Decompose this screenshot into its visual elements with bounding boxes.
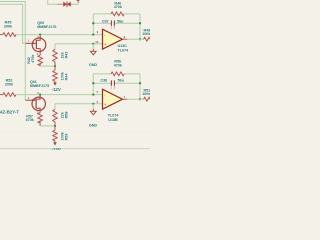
svg-text:U13B: U13B	[108, 118, 118, 122]
op-amp U13B	[103, 89, 123, 109]
junction C38 right	[139, 82, 141, 84]
junction gnd tee top	[92, 43, 94, 45]
svg-text:4Z-B2Y-T: 4Z-B2Y-T	[0, 109, 19, 114]
resistor R48	[144, 37, 154, 41]
component lead above top edge	[77, 0, 80, 2]
svg-text:470k: 470k	[114, 5, 123, 9]
svg-text:10: 10	[95, 40, 99, 44]
junction drain Q60	[39, 33, 41, 35]
output vertical feedback	[139, 14, 141, 39]
resistor R44 100k	[54, 66, 56, 70]
wire Q61 source to divider	[40, 125, 55, 127]
svg-text:200k: 200k	[4, 24, 13, 28]
junction bus/feedback	[92, 33, 94, 35]
resistor R52	[0, 94, 3, 96]
feedback vertical net U13B	[92, 74, 94, 95]
svg-text:R59: R59	[64, 134, 68, 141]
wire CV-B (left edge to Q60 gate)	[0, 4, 25, 43]
junction output top	[139, 38, 141, 40]
transistor Q61	[26, 95, 46, 111]
wire (+) input row top	[55, 43, 103, 45]
wire bus bottom	[16, 94, 103, 96]
svg-text:R43: R43	[64, 52, 68, 59]
ground bottom	[92, 104, 94, 109]
resistor R57	[39, 111, 41, 113]
resistor R58 22k	[53, 109, 57, 122]
svg-text:MMBFJ176: MMBFJ176	[37, 25, 56, 29]
wire bus top	[16, 34, 103, 36]
svg-text:-12V: -12V	[52, 147, 61, 150]
junction drain Q61	[39, 93, 41, 95]
resistor R42	[39, 52, 41, 55]
svg-text:56u: 56u	[118, 78, 125, 82]
resistor R46	[93, 13, 111, 15]
wire (+) input row bottom	[55, 103, 103, 105]
capacitor C37	[93, 22, 111, 24]
svg-text:470k: 470k	[31, 54, 35, 63]
svg-text:R58: R58	[64, 112, 68, 119]
junction C37 right	[139, 22, 141, 24]
junction divider bottom	[54, 125, 56, 127]
svg-text:200k: 200k	[5, 82, 14, 86]
wire Q60 source to divider	[40, 65, 55, 67]
op-amp U13C	[103, 29, 123, 49]
svg-text:GND: GND	[89, 123, 98, 127]
resistor R59 100k	[54, 126, 56, 130]
resistor R43 22k	[53, 49, 57, 62]
wire to diode left	[48, 0, 58, 4]
capacitor C38	[93, 82, 111, 84]
divider chain top: wire from (+) row	[54, 44, 56, 50]
junction C37 left	[92, 22, 94, 24]
svg-text:-12V: -12V	[52, 87, 61, 92]
svg-text:100k: 100k	[142, 92, 150, 96]
output wire bottom	[123, 98, 128, 100]
feedback vertical net U13C	[92, 14, 94, 35]
junction bus/feedback bottom	[92, 93, 94, 95]
sheet text-frame faint line	[0, 131, 150, 133]
resistor R56	[93, 73, 111, 75]
resistor R51	[144, 97, 154, 101]
svg-text:MMBFJ175: MMBFJ175	[30, 84, 49, 88]
power -12V arrow top	[53, 83, 57, 86]
junction C38 left	[92, 82, 94, 84]
output wire top	[123, 38, 128, 40]
wire from diode to top edge	[73, 2, 79, 4]
junction gnd tee bottom	[92, 103, 94, 105]
junction divider top	[54, 65, 56, 67]
svg-text:-: -	[104, 93, 105, 97]
svg-text:C38: C38	[100, 78, 107, 82]
power -12V arrow bottom	[53, 142, 57, 145]
svg-text:R44: R44	[64, 73, 68, 81]
junction output bottom	[139, 98, 141, 100]
resistor R45	[0, 34, 3, 36]
svg-text:TL074: TL074	[118, 48, 130, 52]
wire CV-A (left edge to Q61 gate)	[0, 2, 25, 101]
sheet border line bottom	[0, 148, 150, 150]
ground top	[92, 44, 94, 49]
diode D (back-to-back) leads	[58, 3, 64, 5]
svg-text:-: -	[104, 33, 105, 37]
svg-text:470k: 470k	[25, 118, 34, 122]
transistor Q60	[26, 36, 46, 52]
divider chain bottom wire	[54, 104, 56, 110]
svg-text:TL074: TL074	[108, 114, 120, 118]
svg-text:470k: 470k	[114, 63, 123, 67]
svg-text:+: +	[104, 42, 106, 46]
output vertical feedback bottom	[139, 74, 141, 99]
diode D body	[63, 2, 67, 7]
svg-text:100k: 100k	[142, 32, 150, 36]
svg-text:+: +	[104, 102, 106, 106]
svg-text:GND: GND	[89, 63, 98, 67]
